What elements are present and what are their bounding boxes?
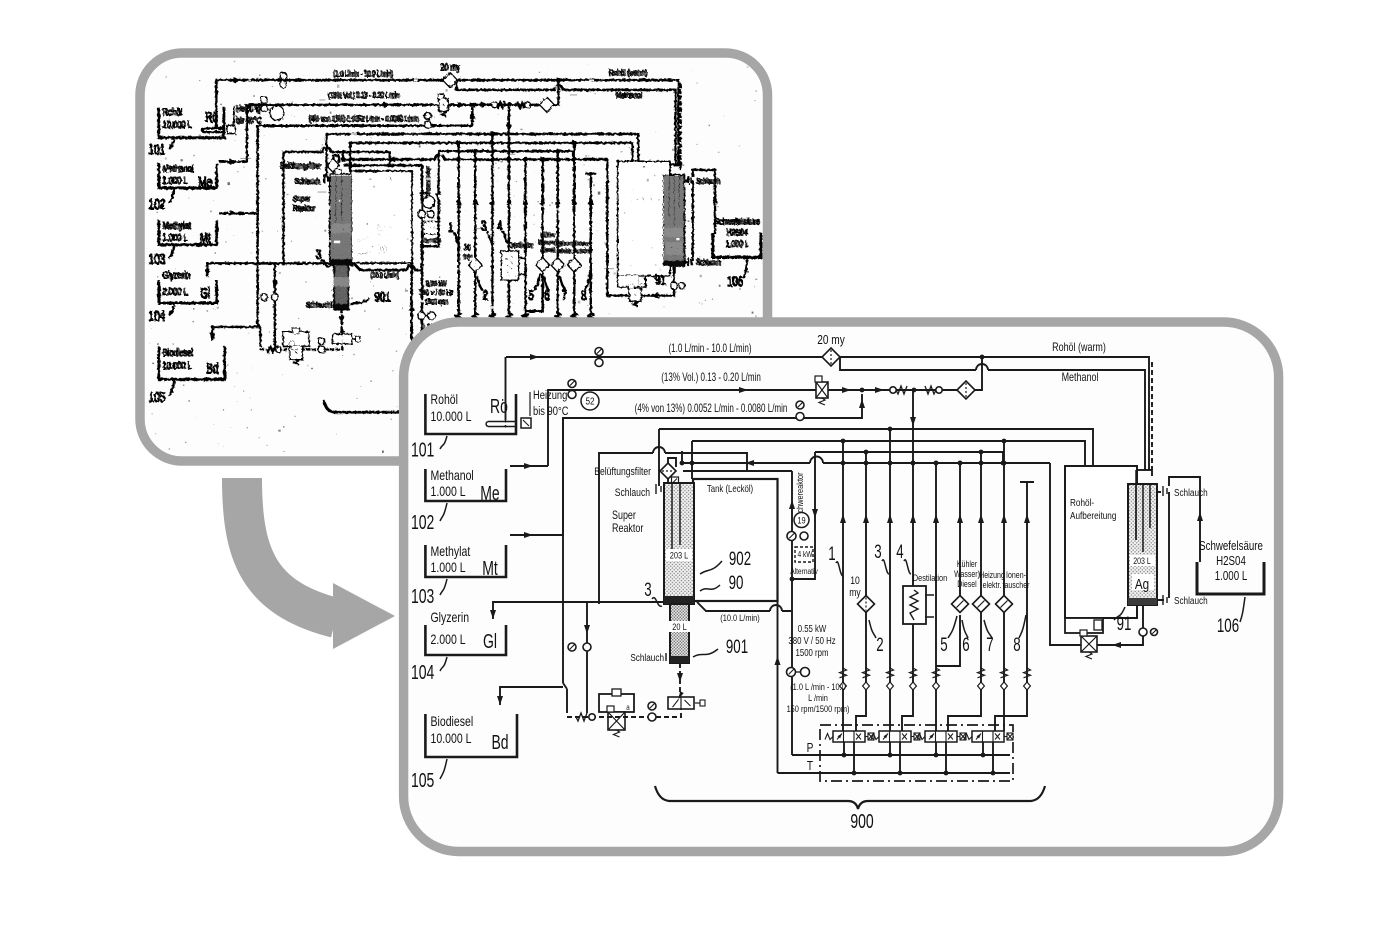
panel P2 clean redrawn schematic <box>404 322 1279 852</box>
scanned diagram (rough copy) <box>148 61 760 453</box>
scan darkened reactor columns <box>330 176 684 309</box>
scan speckle noise <box>152 70 757 453</box>
curved grey arrow <box>242 478 336 618</box>
panel P1 scanned original <box>140 53 768 461</box>
scan dropout + pepper noise <box>150 61 760 452</box>
